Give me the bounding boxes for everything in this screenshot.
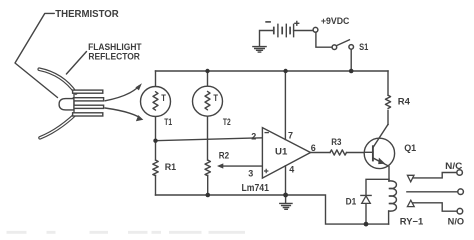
svg-text:Lm741: Lm741 (242, 183, 270, 194)
svg-text:+9VDC: +9VDC (321, 16, 350, 26)
svg-text:T2: T2 (223, 117, 231, 127)
svg-text:REFLECTOR: REFLECTOR (88, 51, 140, 61)
svg-text:Q1: Q1 (404, 143, 416, 153)
svg-text:U1: U1 (275, 147, 288, 158)
svg-text:T: T (161, 93, 166, 103)
svg-text:4: 4 (289, 164, 294, 174)
svg-text:T: T (213, 93, 218, 103)
svg-text:3: 3 (248, 168, 253, 178)
svg-text:N/O: N/O (448, 216, 465, 226)
svg-text:FLASHLIGHT: FLASHLIGHT (88, 42, 142, 52)
svg-text:THERMISTOR: THERMISTOR (55, 9, 119, 20)
svg-text:R3: R3 (331, 137, 341, 147)
svg-text:RY−1: RY−1 (400, 217, 423, 227)
svg-text:7: 7 (288, 131, 293, 141)
svg-text:6: 6 (311, 143, 316, 153)
svg-text:R1: R1 (165, 162, 176, 172)
svg-text:2: 2 (251, 131, 256, 141)
svg-text:N/C: N/C (445, 161, 463, 171)
svg-text:T1: T1 (164, 117, 172, 127)
svg-text:R4: R4 (398, 96, 411, 106)
svg-text:S1: S1 (359, 42, 368, 52)
svg-text:D1: D1 (346, 197, 357, 207)
svg-text:R2: R2 (219, 151, 229, 161)
